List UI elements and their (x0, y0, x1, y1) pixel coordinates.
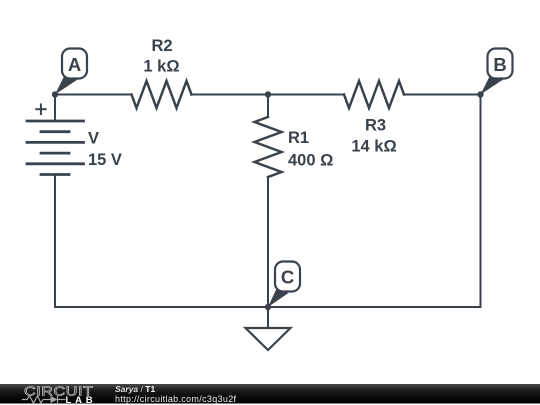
node C label (268, 262, 300, 308)
wire: R2 to middle node (192, 94, 269, 96)
battery V plate 6 (short, -) (41, 173, 69, 176)
battery V plate 3 (long) (27, 141, 84, 144)
svg-text:R1: R1 (288, 129, 309, 147)
svg-text:Sarya / T1: Sarya / T1 (115, 384, 155, 394)
wire: battery - down left side (54, 175, 56, 308)
middle node junction dot (265, 91, 271, 97)
svg-text:R3: R3 (365, 117, 386, 135)
node A junction dot (52, 91, 58, 97)
svg-text:A: A (68, 54, 81, 75)
wire: bottom rail (55, 306, 481, 308)
wire: middle node to R3 (268, 94, 344, 96)
battery V plate 4 (short) (41, 152, 69, 155)
wire: R3 to node B (404, 94, 481, 96)
wire: node A down to battery + (54, 95, 56, 122)
battery V plate 5 (long) (27, 162, 84, 165)
resistor R1 (255, 117, 282, 177)
resistor R3 (344, 81, 404, 108)
battery V plate 2 (short) (41, 130, 69, 133)
CircuitLab logo squiggle (resistor + diode) (22, 396, 66, 403)
svg-text:1 kΩ: 1 kΩ (143, 58, 179, 76)
wire: node C to ground (267, 307, 269, 328)
node A label (55, 49, 87, 95)
svg-text:14 kΩ: 14 kΩ (351, 138, 396, 156)
wire: R1 to node C (267, 177, 269, 307)
wire: middle node down to R1 (267, 95, 269, 118)
svg-text:R2: R2 (151, 37, 172, 55)
node B junction dot (477, 91, 483, 97)
svg-text:LAB: LAB (66, 395, 97, 405)
battery V plate 1 (long, +) (27, 120, 84, 123)
resistor R2 (132, 81, 192, 108)
svg-text:V: V (88, 130, 99, 148)
svg-text:http://circuitlab.com/c3q3u2f: http://circuitlab.com/c3q3u2f (115, 394, 237, 404)
node C junction dot (265, 304, 271, 310)
svg-text:15 V: 15 V (88, 151, 122, 169)
ground symbol (246, 328, 291, 350)
svg-text:400 Ω: 400 Ω (288, 152, 333, 170)
battery V plus sign (36, 105, 45, 115)
svg-text:C: C (281, 267, 294, 288)
node B label (481, 49, 513, 95)
wire: node B down right side (480, 95, 482, 308)
svg-text:B: B (493, 54, 506, 75)
wire top-left: node A to R2 (55, 94, 132, 96)
